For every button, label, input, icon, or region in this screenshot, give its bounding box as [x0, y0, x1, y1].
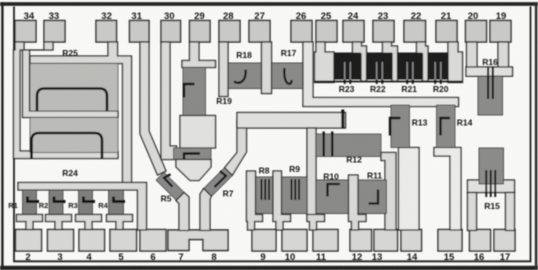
resistor R5 body (diagonal): [156, 172, 184, 200]
wire pin32 leg to top conductor and right riser to bus: [30, 42, 132, 183]
R11 trim: [369, 190, 379, 204]
resistor R25 body: [30, 64, 118, 112]
wire R14 to pad15: [434, 148, 461, 231]
pad 22: [404, 21, 426, 43]
wire R5 to pad7 leg: [176, 193, 189, 231]
pad 31: [130, 21, 150, 43]
wire pin21 leg / comb right conductor: [448, 42, 463, 83]
border outer right: [535, 2, 538, 270]
resistor R25 trim line: [37, 89, 107, 112]
resistor R3 body: [79, 190, 93, 216]
wire pin30 leg to R6 left arm: [161, 42, 177, 160]
R12 trim ticks: [323, 132, 325, 157]
pad 17: [494, 230, 515, 252]
R6 trim: [184, 154, 200, 165]
wire pin22 leg and finger: [417, 42, 429, 81]
pad 32: [96, 21, 117, 43]
pad 33: [44, 21, 65, 43]
bus bar over R1-R4 with drop to pad 6: [18, 183, 147, 231]
pad 21: [436, 21, 457, 43]
wire pin28 leg: [219, 42, 228, 97]
border outer top: [0, 2, 538, 6]
resistor R16 body: [478, 76, 503, 115]
R9 trim ticks: [291, 179, 301, 200]
pad 25: [316, 21, 337, 43]
resistor R12 body: [316, 134, 381, 157]
R16 crossbar conductor: [466, 67, 513, 76]
resistor R21 body (black): [398, 53, 423, 80]
comb bottom outline: [315, 81, 463, 83]
pad 27: [249, 21, 270, 43]
wire pin19 leg: [498, 42, 509, 68]
wire pin11 riser: [307, 128, 316, 215]
pad 20: [466, 21, 487, 43]
R1 trim: [28, 197, 40, 202]
resistor R22 body (black): [367, 53, 393, 80]
border outer left: [1, 2, 3, 270]
pad 24: [343, 21, 364, 43]
R8 trim ticks: [261, 179, 271, 200]
resistor R4 body: [109, 190, 124, 216]
R19 bottom conductor: [180, 116, 216, 149]
resistor R15 body: [479, 148, 504, 184]
R18 trim hook: [234, 70, 246, 83]
wire pin10 finger + neck: [273, 171, 291, 230]
wire pin25 leg / comb left conductor: [315, 42, 335, 83]
wire pin26 leg + bar A to R13/R14 tops: [303, 42, 459, 107]
wire right arm to pad17: [506, 193, 515, 231]
resistor R7 body (diagonal): [204, 168, 233, 197]
bar B conductor: [237, 113, 346, 129]
wire pin9 finger + neck: [247, 171, 263, 230]
R10 trim: [328, 184, 341, 197]
R14 trim: [441, 118, 451, 136]
R20 trim ticks: [434, 62, 441, 84]
pad 28: [219, 21, 240, 43]
pad 12: [350, 230, 372, 252]
wire pin24 leg and finger: [353, 42, 367, 81]
pad 29: [190, 21, 211, 43]
pad 16: [470, 230, 491, 252]
resistor R24 trim line: [32, 133, 103, 159]
resistor R13 body: [391, 105, 410, 148]
wire pin23 leg and finger: [383, 42, 398, 81]
R15 trim ticks: [485, 170, 487, 197]
pad 4: [79, 230, 105, 252]
wire pin34 left riser to bottom conductor: [14, 42, 119, 159]
R5 trim arrow: [164, 174, 173, 187]
R15 crossbar conductor: [468, 180, 515, 193]
wire bar B left drop to R7 top: [225, 120, 247, 175]
resistor R1 body: [23, 190, 37, 216]
I-beam pad pin4: [76, 215, 102, 230]
R19 trim: [184, 84, 195, 98]
R22 trim ticks: [376, 62, 383, 84]
pad 11: [313, 230, 338, 252]
pad 9: [252, 230, 276, 252]
wire pin20 leg: [467, 42, 478, 68]
wire pin29 leg and R19 top conductor: [182, 42, 216, 68]
pad 14: [401, 230, 422, 252]
resistor R6 body: [174, 148, 212, 160]
resistor band R10+R11 body: [316, 180, 387, 214]
R2 trim: [54, 197, 66, 202]
center node pentagon below R6: [176, 160, 211, 181]
wire left arm to pad16: [468, 193, 477, 231]
R4 trim: [114, 197, 126, 202]
wire pin33 riser to middle conductor: [23, 42, 119, 118]
pad 2: [16, 230, 42, 252]
wire pin13 riser from R12: [381, 153, 396, 231]
resistor R24 body: [30, 118, 118, 153]
R7 trim arrow: [215, 171, 227, 187]
resistor band R8+R9 body: [254, 177, 307, 214]
resistor R14 body: [437, 105, 456, 148]
wire pin27 finger: [262, 42, 272, 94]
R13 trim: [390, 118, 401, 136]
resistor R2 body: [49, 190, 63, 216]
pad 23: [373, 21, 394, 43]
wire R13 to pad14: [399, 148, 420, 231]
R23 trim ticks: [344, 62, 351, 84]
R21 trim ticks: [406, 62, 413, 84]
pad 15: [438, 230, 462, 252]
resistor R19 body: [183, 68, 206, 116]
pad 10: [282, 230, 307, 252]
wire pin11 neck: [307, 215, 325, 231]
I-beam pad pin5: [107, 215, 133, 230]
pad 13: [374, 230, 398, 252]
I-beam pad pin3: [46, 215, 72, 230]
resistor band R18+R17 body: [227, 63, 304, 89]
resistor R20 body (black): [428, 53, 449, 80]
bar B trim tick: [341, 110, 344, 129]
pad 6: [140, 230, 166, 252]
pad 34: [15, 21, 36, 43]
pad 30: [161, 21, 181, 43]
I-beam pad pin2: [17, 215, 43, 230]
wire R7 to pad8 leg: [200, 189, 211, 231]
pad 3: [48, 230, 74, 252]
pads 7 and 8 joined: [168, 230, 228, 251]
pad 26: [291, 21, 312, 43]
pad 5: [110, 230, 137, 252]
R17 trim hook: [284, 68, 291, 84]
R16 trim ticks: [487, 67, 489, 99]
pad 19: [490, 21, 511, 43]
wire pin31 leg with diagonal to R5: [140, 42, 166, 175]
wire pin12 finger + neck: [349, 175, 367, 230]
resistor R23 body (black): [334, 53, 361, 80]
R3 trim: [84, 197, 96, 202]
border outer bottom: [0, 266, 538, 270]
